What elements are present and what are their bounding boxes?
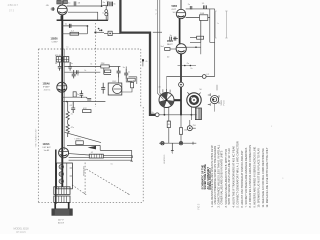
svg-text:1x: 1x xyxy=(66,46,68,48)
tick end y143 xyxy=(192,142,194,145)
wire V5 cathode link xyxy=(186,42,201,54)
svg-text:8. X INDICATES A CHASSIS GROUN: 8. X INDICATES A CHASSIS GROUND CONNECTI… xyxy=(248,145,252,208)
power transformer secondary winding xyxy=(54,196,70,202)
wire secondary y72 xyxy=(64,71,100,73)
svg-text:1x: 1x xyxy=(217,23,219,25)
resistor R13 left of V5 xyxy=(165,48,170,51)
resistor R16 volume xyxy=(76,141,84,145)
ground bus y143 xyxy=(159,142,196,144)
crystal box near shield corner xyxy=(98,28,162,36)
resistor R5 horizontal xyxy=(64,65,120,68)
svg-text:CONV: CONV xyxy=(52,41,59,43)
svg-text:Zx: Zx xyxy=(187,63,189,65)
svg-text:OUT: OUT xyxy=(172,9,177,11)
resistor R6 cluster right of divider xyxy=(104,68,111,74)
tick marks dial pointer xyxy=(84,193,130,195)
svg-text:4. ALIGN THE IF TRANSFORMERS A: 4. ALIGN THE IF TRANSFORMERS AT 455 KC P… xyxy=(231,146,235,208)
svg-text:1 MEG: 1 MEG xyxy=(74,139,81,141)
resistor R12 mid right xyxy=(190,20,204,42)
svg-text:HEATERS: HEATERS xyxy=(163,154,166,164)
tube V3 12AV6 det-audio xyxy=(59,148,69,158)
wire can T1 bottom pins xyxy=(164,107,169,115)
capacitor C3 on AVC line xyxy=(69,24,71,28)
svg-text:117 V: 117 V xyxy=(58,219,64,221)
resistor R14 bleeder xyxy=(168,115,170,121)
lamp L4 xyxy=(59,179,63,183)
svg-text:MODEL 8218: MODEL 8218 xyxy=(14,228,30,231)
resistor R1 box above V1 xyxy=(57,0,61,4)
capacitor C10 cluster xyxy=(124,69,128,79)
svg-text:5x: 5x xyxy=(107,1,109,3)
wire heavy ground run y20.3 xyxy=(62,19,108,21)
wire dial-cord dashed diagonal 1 xyxy=(86,169,128,194)
svg-text:11. SEE PAGE 12 FOR DIAL CORD: 11. SEE PAGE 12 FOR DIAL CORD RESTRINGIN… xyxy=(261,148,265,207)
svg-text:2x: 2x xyxy=(188,4,190,6)
wire dashed tuning-unit box xyxy=(38,23,143,203)
capacitor C9 cluster xyxy=(117,67,121,78)
capacitor C2 on top wire xyxy=(74,1,76,5)
svg-text:THE TUNING UNIT: THE TUNING UNIT xyxy=(36,128,38,148)
svg-text:1x: 1x xyxy=(128,71,130,73)
capacitor C5 below IF xyxy=(58,62,62,71)
svg-text:3x: 3x xyxy=(123,67,125,69)
svg-text:DET AVC: DET AVC xyxy=(43,146,52,149)
wire B+ bus horizontal xyxy=(159,114,196,116)
wire V1 base blob xyxy=(60,16,62,21)
title block rotated xyxy=(202,164,213,190)
wire volume link xyxy=(67,145,132,150)
svg-text:OSC: OSC xyxy=(112,81,117,83)
chassis arrow xyxy=(171,143,174,153)
svg-text:12BA6: 12BA6 xyxy=(43,82,51,85)
svg-text:CH 101.5: CH 101.5 xyxy=(16,232,26,234)
notes list rotated xyxy=(210,141,269,207)
resistor R3 on y33.8 xyxy=(70,32,79,35)
svg-text:3x: 3x xyxy=(55,63,57,65)
power plug dark bar xyxy=(52,209,73,216)
wire B+ heavy drop xyxy=(180,54,182,115)
svg-text:PLUG: PLUG xyxy=(224,100,226,106)
resistor R7 small xyxy=(131,82,134,87)
svg-text:G: G xyxy=(146,61,148,63)
tube V4 50B5 output xyxy=(176,0,185,19)
svg-text:2x: 2x xyxy=(77,94,79,96)
wire left heavy drop xyxy=(55,150,57,205)
capacitor C11 xyxy=(86,97,91,100)
capacitor C4 pair top xyxy=(103,2,113,7)
svg-text:455 KC: 455 KC xyxy=(55,55,62,57)
wire grid return y101.5 xyxy=(62,101,105,103)
wire heavy into filter can xyxy=(174,99,181,101)
wire shield thick line xyxy=(120,0,155,115)
resistor R4 vertical xyxy=(73,92,76,97)
capacitor C15 left of V5 xyxy=(170,37,178,41)
wire converge to can xyxy=(157,93,163,100)
inductor L1 loop xyxy=(105,6,108,20)
ground crossing symbol 2 xyxy=(179,142,182,145)
node junction at x101.6 xyxy=(101,0,103,6)
tube V1 12BE6 converter xyxy=(57,0,67,14)
oscillator tube socket box xyxy=(108,83,122,95)
capacitor C18 pair xyxy=(174,37,176,41)
output transformer box below T2 xyxy=(195,108,201,120)
phono jack J1 xyxy=(187,126,192,131)
svg-text:47K: 47K xyxy=(83,108,87,110)
pilot lamp chain box xyxy=(57,163,73,189)
wire osc grid y33.8 xyxy=(62,26,87,34)
wire x168 drop xyxy=(166,77,168,93)
svg-text:1st AF: 1st AF xyxy=(44,149,50,152)
wire AVC line y25.9 xyxy=(62,25,87,27)
svg-text:3x: 3x xyxy=(113,4,115,6)
svg-text:12BE6: 12BE6 xyxy=(51,39,59,41)
capacitor C8 near divider xyxy=(101,83,105,94)
svg-text:22K: 22K xyxy=(101,63,105,65)
svg-text:7. SOCKET VOLTAGES ARE AVERAGE: 7. SOCKET VOLTAGES ARE AVERAGE READINGS xyxy=(244,147,248,207)
capacitor C12 hanging xyxy=(71,102,75,114)
svg-text:47x: 47x xyxy=(71,127,74,129)
node dots on B+ bus xyxy=(164,114,166,116)
wire stub x107.9 xyxy=(107,13,109,21)
wire top right loop xyxy=(186,9,215,77)
filter can T1 socket view xyxy=(159,93,174,108)
wire faint right verticals xyxy=(215,11,226,38)
tone capacitor box xyxy=(89,154,103,158)
svg-text:RECT: RECT xyxy=(167,44,173,46)
lamp L3 xyxy=(59,172,63,176)
node connector circle on shield line xyxy=(155,113,159,117)
capacitor C1 at V1 grid xyxy=(51,7,55,11)
resistor R15 bleeder xyxy=(180,115,182,128)
svg-text:FIG 5: FIG 5 xyxy=(198,203,200,209)
lamp L2 xyxy=(59,165,63,169)
svg-text:2x: 2x xyxy=(190,68,192,70)
wire screen line y12 xyxy=(68,12,98,20)
resistor R2 box above V1 xyxy=(63,0,67,3)
wire transformer legs xyxy=(55,202,68,209)
svg-text:2x: 2x xyxy=(84,70,86,72)
svg-text:2x: 2x xyxy=(71,114,73,116)
wire main vertical bus xyxy=(61,15,63,187)
svg-text:OTHER VALUES ARE GIVEN IN MMFD: OTHER VALUES ARE GIVEN IN MMFD UNITS xyxy=(220,150,224,204)
capacitor C7 right of bus xyxy=(72,70,76,78)
svg-text:35W4: 35W4 xyxy=(167,40,174,43)
node dots near x101 y30 xyxy=(101,29,103,31)
tube V5 35W4 rectifier xyxy=(176,44,186,54)
resistor R11 screen box xyxy=(186,15,210,21)
terminal dot antenna xyxy=(142,59,144,61)
capacitor C16 on y72 xyxy=(76,70,78,74)
svg-text:6. ADJUST OSC TRIMMER AT 1620: 6. ADJUST OSC TRIMMER AT 1620 KC AND ANT xyxy=(240,150,244,208)
power transformer primary winding xyxy=(54,187,70,195)
svg-text:9. HEATERS ARE WIRED IN SERIES: 9. HEATERS ARE WIRED IN SERIES ACROSS LI… xyxy=(252,147,256,208)
wire dial-cord dashed diagonal 2 xyxy=(72,185,85,194)
svg-text:SPKR: SPKR xyxy=(221,99,223,105)
wire junction y65.5 xyxy=(178,65,197,67)
speaker jack circle xyxy=(208,93,219,105)
wire dashed oscillator divider xyxy=(95,23,97,107)
wire grid line top y6 xyxy=(67,5,102,7)
svg-text:57 3: 57 3 xyxy=(9,9,15,13)
svg-text:1x: 1x xyxy=(155,10,157,12)
capacitor C13 top right xyxy=(190,6,192,9)
wire tone link xyxy=(69,154,133,158)
tube V2 12BA6 IF amp xyxy=(57,82,67,92)
capacitor C17 xyxy=(80,90,84,98)
resistor R9 vertical zigzag xyxy=(66,102,69,125)
resistor R17 osc xyxy=(128,78,136,81)
filter can T2 socket view xyxy=(187,92,201,107)
svg-text:12AV6: 12AV6 xyxy=(43,143,51,146)
heater wire pair xyxy=(69,158,132,161)
wire V1 cathode corner xyxy=(57,19,63,21)
svg-text:150K: 150K xyxy=(200,13,205,15)
ground crossing symbol 1 xyxy=(161,142,164,145)
node connector circle on B+ xyxy=(179,82,184,87)
wire secondary vertical bus xyxy=(63,49,65,150)
wire AVC bus y97 xyxy=(62,96,86,98)
node connector circle output xyxy=(202,75,206,79)
wire output jack line xyxy=(167,76,215,78)
capacitor C6 below IF xyxy=(68,62,72,71)
svg-text:SPEAKER: SPEAKER xyxy=(83,166,86,176)
arrow volume wiper xyxy=(88,146,96,150)
can T1 top pins xyxy=(163,89,170,93)
svg-text:WITH NO SIGNAL INPUT AND LINE: WITH NO SIGNAL INPUT AND LINE AT 117 V A… xyxy=(227,148,231,205)
wire plate line V4-V5 xyxy=(179,19,181,44)
svg-text:5. CONNECT GENERATOR THRU A .1: 5. CONNECT GENERATOR THRU A .1 MFD CAPAC… xyxy=(236,141,240,207)
wire dashed pointer vertical xyxy=(84,163,86,195)
resistor R8 horizontal xyxy=(83,110,91,113)
wire osc cluster links xyxy=(119,67,137,93)
wire volume AVC diagonal xyxy=(65,132,101,142)
capacitor C14 top right xyxy=(203,5,206,9)
svg-text:60 CY: 60 CY xyxy=(58,223,65,225)
wire x131.7 drop xyxy=(130,150,133,161)
svg-text:12. REPLACE LINE FUSE WITH SAM: 12. REPLACE LINE FUSE WITH SAME TYPE ONL… xyxy=(265,147,269,207)
svg-text:455 KC: 455 KC xyxy=(44,89,51,91)
wire grid feed verticals xyxy=(157,0,160,93)
wire speaker drop xyxy=(215,85,217,112)
svg-text:6x: 6x xyxy=(111,163,113,165)
resistor R10 vertical zigzag xyxy=(66,124,69,137)
svg-text:3x: 3x xyxy=(71,63,73,65)
svg-text:4 B0 217: 4 B0 217 xyxy=(8,3,19,7)
node dots below V2 xyxy=(61,96,63,98)
IF transformer T3 box xyxy=(56,57,69,62)
svg-text:1x: 1x xyxy=(77,74,79,76)
svg-text:2x: 2x xyxy=(133,80,135,82)
svg-text:3x: 3x xyxy=(90,64,92,66)
svg-text:IF AMP: IF AMP xyxy=(43,85,50,88)
svg-text:50B5: 50B5 xyxy=(172,6,178,8)
svg-text:10. SPEAKER PLUG MUST BE IN PL: 10. SPEAKER PLUG MUST BE IN PLACE TO PLA… xyxy=(257,148,261,208)
node junction dot xyxy=(87,25,89,27)
